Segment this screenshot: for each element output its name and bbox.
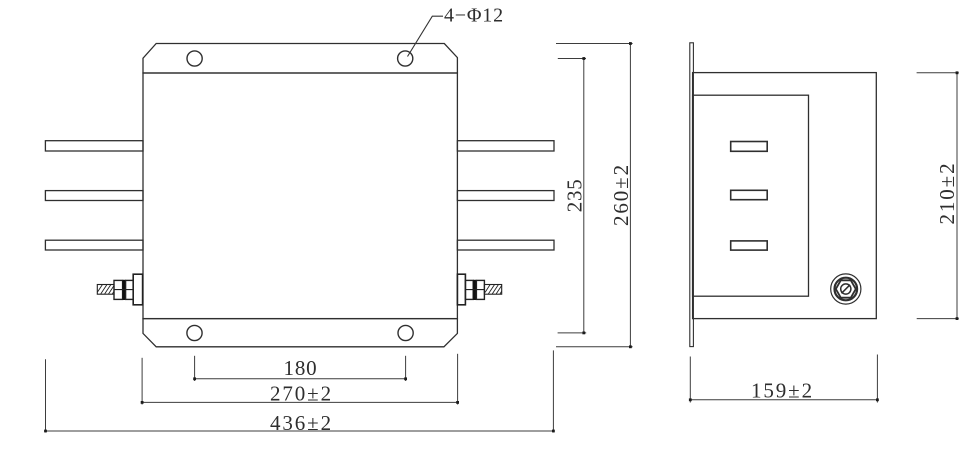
svg-text:159±2: 159±2: [751, 378, 814, 402]
svg-text:270±2: 270±2: [270, 381, 333, 405]
svg-text:4−Φ12: 4−Φ12: [444, 5, 504, 27]
svg-text:235: 235: [563, 179, 587, 213]
svg-text:180: 180: [284, 356, 318, 380]
svg-text:210±2: 210±2: [935, 161, 959, 224]
svg-text:436±2: 436±2: [270, 411, 333, 435]
svg-text:260±2: 260±2: [609, 163, 633, 226]
